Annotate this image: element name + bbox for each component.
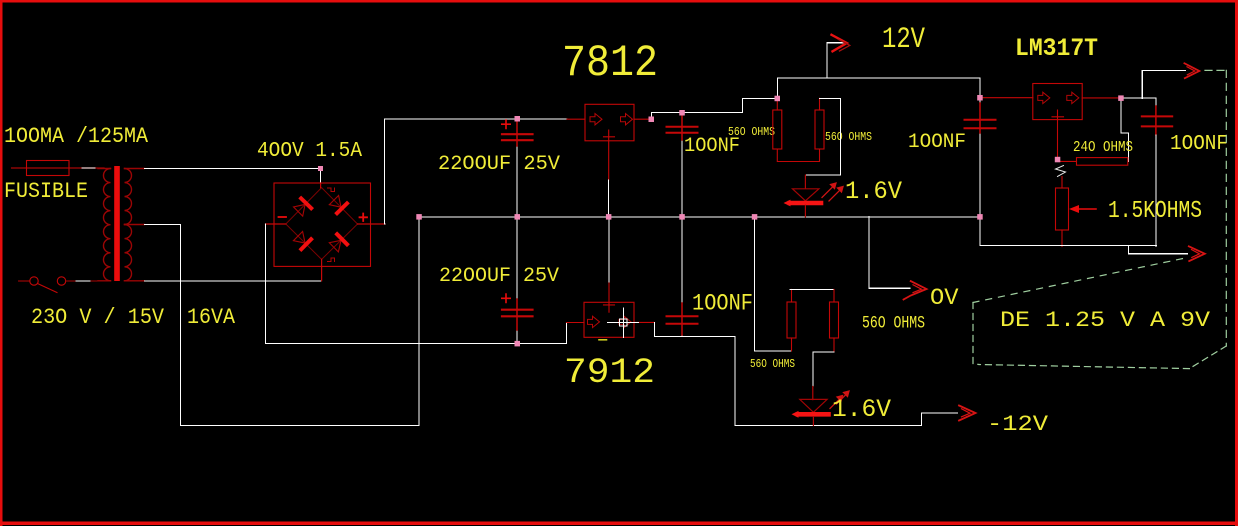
capacitor C2 2200UF lower <box>502 217 533 344</box>
callout dashed leader horizontal at V+ <box>1205 69 1226 71</box>
regulator U1 7812 arrow symbol output <box>621 114 633 125</box>
wire R2 top to LED anode <box>805 98 840 188</box>
node ADJ zigzag <box>1056 166 1066 177</box>
wire bridge-minus down to negative bus <box>266 224 567 344</box>
LED D2 light arrows <box>830 391 849 409</box>
wire 7812 output run to LED node <box>651 98 777 119</box>
svg-text:DE 1.25 V A 9V: DE 1.25 V A 9V <box>1000 308 1211 333</box>
svg-text:-12V: -12V <box>987 411 1049 437</box>
bridge BR1 plus sign <box>360 214 368 222</box>
wire bridge-plus up to 7812 input rail <box>385 119 567 224</box>
wire centre-tap to 0V bus <box>144 217 419 426</box>
svg-text:22OOUF 25V: 22OOUF 25V <box>438 153 560 176</box>
wire 7912 input stub <box>567 322 585 324</box>
wire LM317 output node run <box>1121 98 1156 106</box>
wire 7812 ground to 0V bus <box>608 180 610 217</box>
wire mains-live into fuse <box>12 167 104 169</box>
svg-text:1OONF: 1OONF <box>1170 133 1228 156</box>
wire 7912 output stub <box>634 321 655 323</box>
wire 0V terminal drop <box>869 217 910 288</box>
wire 7812 output stub <box>634 118 651 120</box>
terminal arrow -12V <box>959 406 976 421</box>
regulator U1 7812 ground pin and tick <box>604 130 615 180</box>
svg-text:7912: 7912 <box>564 352 655 393</box>
resistor R5 240 ohms <box>1059 158 1128 166</box>
svg-text:56O OHMS: 56O OHMS <box>750 357 795 371</box>
regulator U1 7812 arrow symbol input <box>590 114 602 125</box>
wire LM317 input stub <box>980 97 1033 99</box>
wire white overlap segment on fuse wire <box>82 167 95 169</box>
terminal arrow 0V <box>904 281 927 299</box>
transformer TR1 core <box>114 166 120 281</box>
svg-text:56O OHMS: 56O OHMS <box>728 125 775 139</box>
regulator U2 7912 arrow symbol output <box>619 316 631 327</box>
wire +12V rail <box>777 78 980 99</box>
svg-text:23O V / 15V: 23O V / 15V <box>31 305 165 330</box>
svg-text:16VA: 16VA <box>187 305 236 330</box>
wire output V+ terminal riser <box>1142 70 1185 98</box>
diode D-BR of bridge (anode bottom corner, cathode right) <box>329 233 348 252</box>
bridge BR1 diamond <box>286 188 358 260</box>
svg-text:22OOUF 25V: 22OOUF 25V <box>439 265 559 288</box>
wire R4 bottom to LED D2 anode <box>813 352 834 387</box>
wire 7812 input stub <box>567 118 585 120</box>
bridge BR1 minus stub <box>266 223 286 225</box>
capacitor C5 100NF on +12V rail <box>965 98 996 217</box>
resistor R4 560 ohms <box>830 289 839 351</box>
capacitor C3 100NF on 7812 output <box>667 113 698 217</box>
resistor R1 560 ohms <box>773 98 820 161</box>
bridge BR1 top AC stub <box>320 183 322 188</box>
bridge BR1 plus stub <box>358 223 386 225</box>
regulator U2 7912 body <box>584 302 634 337</box>
svg-text:24O OHMS: 24O OHMS <box>1073 140 1133 156</box>
capacitor C6 100NF on LM317 output <box>1142 106 1172 247</box>
wire LM317 output stub <box>1082 97 1121 99</box>
regulator U1 7812 body <box>585 104 634 141</box>
diode D-TR of bridge (anode top corner, cathode right) <box>329 196 348 215</box>
capacitor C4 100NF on 7912 output <box>667 217 698 337</box>
svg-text:1.6V: 1.6V <box>832 395 891 424</box>
node 0V bus <box>419 216 980 218</box>
svg-text:56O OHMS: 56O OHMS <box>862 314 925 334</box>
svg-text:1.6V: 1.6V <box>845 177 902 206</box>
diode D-BL of bridge (anode left corner, cathode bottom) <box>293 232 312 251</box>
svg-text:1OONF: 1OONF <box>908 131 966 154</box>
resistor R3 560 ohms <box>787 289 796 351</box>
transformer TR1 primary coil <box>98 169 111 281</box>
svg-text:OV: OV <box>930 285 959 312</box>
resistor R2 560 ohms <box>815 98 824 149</box>
fuse F1 <box>27 161 70 176</box>
regulator U3 arrow symbol input <box>1038 92 1050 103</box>
regulator U3 arrow symbol output <box>1067 92 1079 103</box>
terminal arrow 12V <box>832 35 850 52</box>
terminal arrow V+ output <box>1184 63 1199 78</box>
wire LM317 bottom rail <box>980 217 1156 246</box>
terminal arrow V- output <box>1189 246 1205 261</box>
wire 7912 ground to 0V bus <box>608 217 610 282</box>
svg-text:LM317T: LM317T <box>1015 34 1098 63</box>
LED D2 1.6V indicator <box>792 387 829 426</box>
svg-text:56O OHMS: 56O OHMS <box>825 130 872 144</box>
svg-text:12V: 12V <box>882 22 925 56</box>
bridge BR1 minus sign <box>279 216 287 218</box>
LED D1 1.6V indicator <box>784 175 822 217</box>
svg-text:1OONF: 1OONF <box>692 291 753 317</box>
svg-text:4OOV 1.5A: 4OOV 1.5A <box>257 140 362 163</box>
wire 12V terminal stem <box>827 43 843 78</box>
stray yellow tick under 7912 <box>599 339 607 341</box>
wire 0V bus down to R3 <box>755 217 792 351</box>
callout dashed right vertical <box>1225 70 1227 346</box>
switch SW1 <box>19 277 98 293</box>
capacitor C1 2200UF upper <box>502 119 533 217</box>
wire R3 top to R4 top <box>790 288 834 290</box>
resistor R6 potentiometer 1.5K body <box>1056 177 1069 247</box>
regulator U2 7912 arrow symbol input <box>588 316 600 327</box>
wire secondary-top to bridge <box>144 169 320 184</box>
cursor crosshair over 7912 output <box>608 308 639 338</box>
regulator U2 7912 ground pin and tick <box>604 282 615 313</box>
wire secondary-bottom to bridge <box>144 280 321 282</box>
svg-text:FUSIBLE: FUSIBLE <box>4 179 88 204</box>
svg-text:1OOMA /125MA: 1OOMA /125MA <box>4 124 149 149</box>
bridge BR1 AC squiggle bottom <box>328 258 335 262</box>
transformer TR1 secondary coil with centre tap <box>125 169 145 281</box>
junction grips <box>318 95 1124 346</box>
bridge BR1 AC squiggle top <box>328 188 335 192</box>
wire 240-ohm feedback from output node <box>1121 98 1129 161</box>
resistor R6 wiper arrow <box>1069 205 1096 213</box>
wire 7912 output run to -12V rail <box>655 322 958 425</box>
bridge BR1 bottom AC stub <box>321 259 323 280</box>
bridge rectifier BR1 outer square <box>274 183 371 266</box>
regulator U3 adjust pin and tick <box>1052 110 1064 160</box>
diode D-TL of bridge (anode left corner, cathode top) <box>294 197 313 216</box>
svg-text:1.5KOHMS: 1.5KOHMS <box>1108 198 1202 225</box>
callout bubble outline dashed <box>973 259 1226 369</box>
LED D1 light arrows <box>822 183 843 201</box>
svg-text:7812: 7812 <box>562 39 658 89</box>
wire output V- terminal branch <box>1129 246 1188 254</box>
regulator U3 LM317T body <box>1033 84 1082 120</box>
